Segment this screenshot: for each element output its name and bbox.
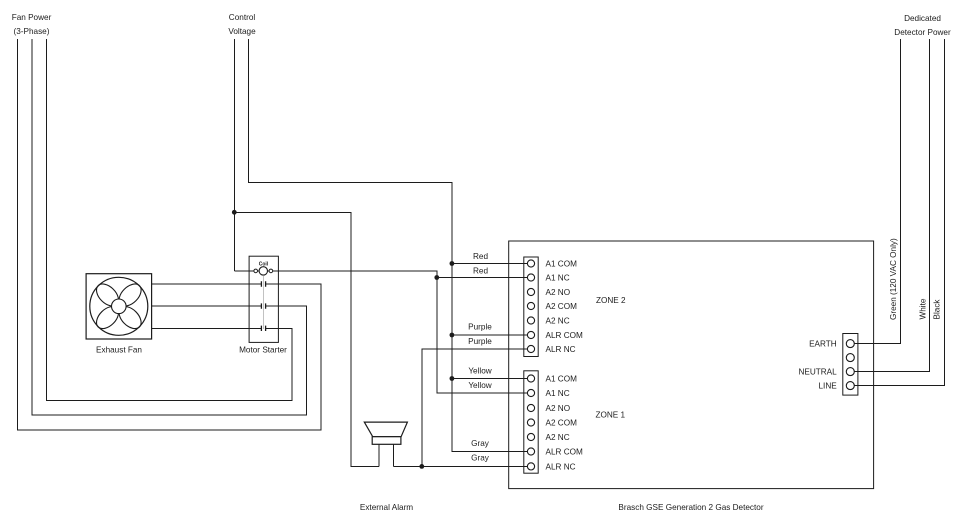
svg-text:Voltage: Voltage xyxy=(228,27,256,36)
terminal strip TB zone 2 xyxy=(524,257,538,357)
wire green earth from dedicated detector power xyxy=(855,39,901,344)
svg-text:A1 NC: A1 NC xyxy=(546,274,570,283)
svg-text:ALR COM: ALR COM xyxy=(546,448,583,457)
svg-text:(3-Phase): (3-Phase) xyxy=(14,27,50,36)
wire A1 COM zone 1 yellow xyxy=(452,378,531,380)
coil M xyxy=(254,267,273,275)
exhaust fan xyxy=(86,274,152,339)
wire exhaust fan to contact 3 left side xyxy=(152,327,262,329)
node Fan Power (3-Phase) label xyxy=(12,13,52,36)
svg-text:ALR NC: ALR NC xyxy=(546,345,576,354)
svg-text:A2 NC: A2 NC xyxy=(546,433,570,442)
svg-text:ALR COM: ALR COM xyxy=(546,331,583,340)
node wire label Gray ALR COM xyxy=(471,439,490,448)
node junction dot coil return at A1 NC xyxy=(434,275,439,280)
svg-text:A1 COM: A1 COM xyxy=(546,375,578,384)
node wire label Purple ALR NC xyxy=(468,337,492,346)
node ZONE 2 label xyxy=(596,296,626,305)
svg-text:Green (120 VAC Only): Green (120 VAC Only) xyxy=(889,238,898,320)
svg-text:Purple: Purple xyxy=(468,323,492,332)
pin labels zone 1 xyxy=(546,375,583,472)
svg-text:ZONE 2: ZONE 2 xyxy=(596,296,626,305)
detector enclosure box xyxy=(509,241,874,489)
contact M3 xyxy=(261,326,265,331)
svg-text:A1 COM: A1 COM xyxy=(546,260,578,269)
node wire label White xyxy=(919,298,928,319)
svg-text:Gray: Gray xyxy=(471,439,490,448)
contact M1 xyxy=(261,281,265,286)
pin labels zone 2 xyxy=(546,260,583,355)
motor starter box xyxy=(249,256,278,342)
svg-text:Red: Red xyxy=(473,252,488,261)
node wire label Red A1 COM xyxy=(473,252,488,261)
terminal strip power entry EARTH NEUTRAL LINE xyxy=(843,334,858,396)
wire mechanical linkage dashed xyxy=(262,276,264,329)
wire A1 COM zone 2 red xyxy=(452,263,531,265)
node junction dot on ALR NC zone 1 line xyxy=(419,464,424,469)
wire ALR COM zone 2 purple xyxy=(452,334,531,336)
wire control voltage left line down to coil with branch to external alarm xyxy=(233,39,235,271)
svg-text:Control: Control xyxy=(229,13,256,22)
node wire label Yellow A1 NC xyxy=(468,381,491,390)
node Coil value label xyxy=(259,261,269,267)
terminal strip TB zone 1 xyxy=(524,371,538,473)
svg-text:Brasch GSE Generation 2 Gas De: Brasch GSE Generation 2 Gas Detector xyxy=(618,503,763,512)
wire external alarm right terminal to ALR NC zone 1 gray xyxy=(394,465,531,467)
svg-text:White: White xyxy=(919,298,928,319)
node Exhaust Fan label xyxy=(96,346,142,355)
pin label NEUTRAL xyxy=(798,368,837,377)
pin label EARTH xyxy=(809,340,837,349)
svg-text:Exhaust Fan: Exhaust Fan xyxy=(96,346,142,355)
wire control branch to external alarm left terminal xyxy=(234,212,379,466)
node junction dot on control voltage line xyxy=(232,210,237,215)
svg-text:Motor Starter: Motor Starter xyxy=(239,346,287,355)
svg-text:A2 NC: A2 NC xyxy=(546,317,570,326)
svg-text:A2 COM: A2 COM xyxy=(546,302,578,311)
wire black line from dedicated detector power xyxy=(855,39,945,386)
svg-text:A1 NC: A1 NC xyxy=(546,389,570,398)
node wire label Purple ALR COM xyxy=(468,323,492,332)
svg-text:A2 NO: A2 NO xyxy=(546,288,571,297)
svg-text:Gray: Gray xyxy=(471,454,490,463)
node wire label Red A1 NC xyxy=(473,267,488,276)
svg-text:A2 NO: A2 NO xyxy=(546,404,571,413)
pin label LINE xyxy=(818,382,837,391)
svg-text:ALR NC: ALR NC xyxy=(546,462,576,471)
svg-text:Detector Power: Detector Power xyxy=(894,28,951,37)
wire exhaust fan to contact 2 left side xyxy=(152,305,262,307)
node junction dot at ALR COM zone 2 xyxy=(450,333,455,338)
node ZONE 1 label xyxy=(596,411,626,420)
wire exhaust fan to contact 1 left side xyxy=(152,283,262,285)
svg-text:LINE: LINE xyxy=(818,382,837,391)
node wire label Black xyxy=(933,299,942,320)
node External Alarm label xyxy=(360,503,413,512)
node Motor Starter label xyxy=(239,346,287,355)
wire coil output to A1 NC terminals xyxy=(234,271,531,393)
svg-text:Yellow: Yellow xyxy=(468,381,491,390)
wire phase L3 from Fan Power down and around to contact 3 right side xyxy=(46,39,292,400)
external alarm speaker xyxy=(364,422,407,466)
svg-text:External Alarm: External Alarm xyxy=(360,503,413,512)
svg-text:A2 COM: A2 COM xyxy=(546,419,578,428)
svg-text:Fan Power: Fan Power xyxy=(12,13,52,22)
svg-text:Black: Black xyxy=(933,299,942,320)
svg-text:Red: Red xyxy=(473,267,488,276)
node Brasch GSE Generation 2 Gas Detector label xyxy=(618,503,763,512)
svg-text:ZONE 1: ZONE 1 xyxy=(596,411,626,420)
node junction dot at A1 COM zone 1 xyxy=(450,376,455,381)
node wire label Yellow A1 COM xyxy=(468,367,491,376)
wire A1 NC zone 2 red xyxy=(437,277,531,279)
svg-text:Dedicated: Dedicated xyxy=(904,14,941,23)
node Dedicated Detector Power label xyxy=(894,14,951,37)
wire phase L2 from Fan Power down and around to contact 2 right side xyxy=(32,39,307,415)
wire white neutral from dedicated detector power xyxy=(855,39,930,372)
node wire label Green (120 VAC Only) xyxy=(889,238,898,320)
contact M2 xyxy=(261,303,265,308)
wire control voltage right line down to A1 COM bus xyxy=(249,39,532,452)
svg-text:EARTH: EARTH xyxy=(809,340,837,349)
svg-text:Purple: Purple xyxy=(468,337,492,346)
node Control Voltage label xyxy=(228,13,256,36)
wire phase L1 from Fan Power down and around to contact 1 right side xyxy=(17,39,321,430)
svg-text:NEUTRAL: NEUTRAL xyxy=(798,368,837,377)
node junction dot at A1 COM zone 2 xyxy=(450,261,455,266)
node wire label Gray ALR NC xyxy=(471,454,490,463)
svg-text:Yellow: Yellow xyxy=(468,367,491,376)
wire ALR NC zone 2 purple down to alarm line xyxy=(422,349,531,466)
